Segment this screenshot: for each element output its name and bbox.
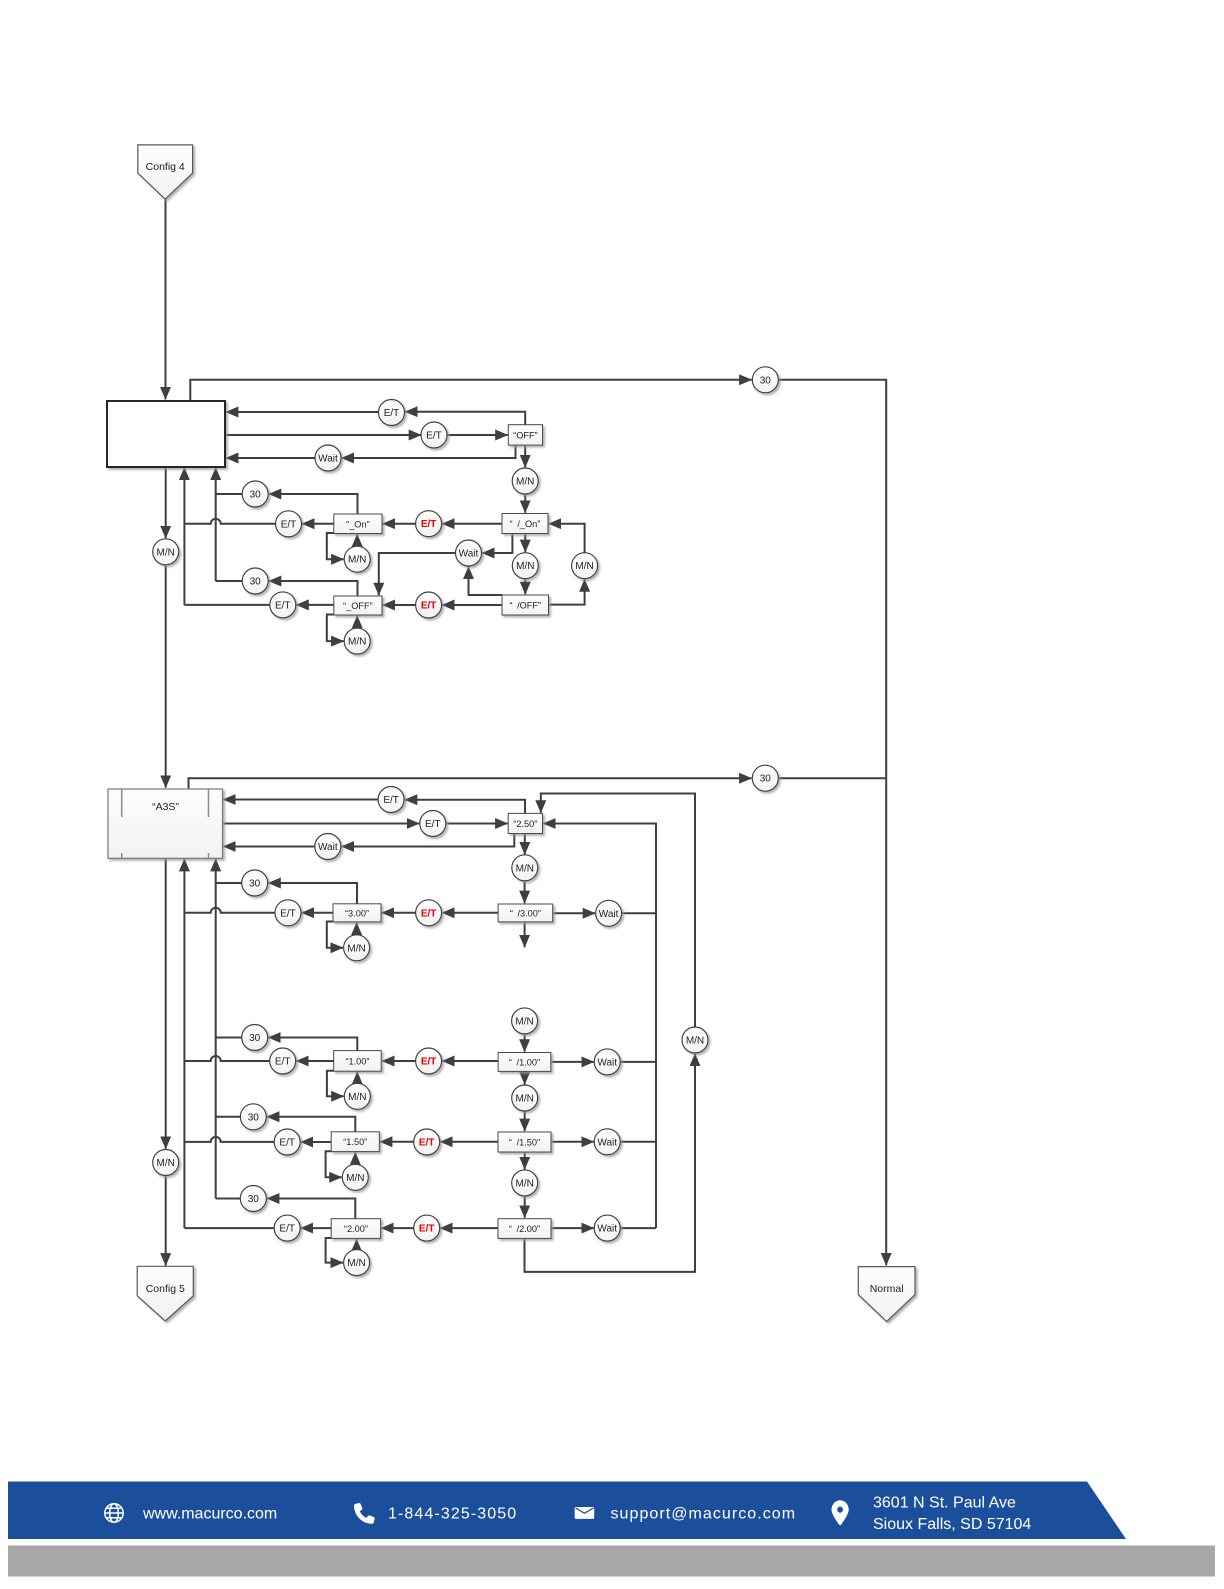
svg-text:E/T: E/T <box>421 601 437 612</box>
svg-text:M/N: M/N <box>516 477 534 488</box>
wire Wait into A3S <box>223 846 315 848</box>
wire slash_On to red E/T <box>442 523 502 525</box>
svg-text:“A3S”: “A3S” <box>152 801 179 813</box>
wire E/T row4 left <box>184 1227 274 1229</box>
wire 30 to collector <box>216 493 243 495</box>
wire M/N loop into 300 bottom <box>356 923 358 935</box>
wire E/T row2 left with hop <box>184 1056 269 1061</box>
wire slash100 to Wait right <box>551 1061 594 1063</box>
wire Wait2 to v3 <box>620 1061 656 1063</box>
svg-text:M/N: M/N <box>516 1178 534 1189</box>
wire box1 to E/T out <box>225 434 421 436</box>
node E/T return 2 <box>378 787 404 813</box>
wire ET collector up into box1 <box>183 468 185 605</box>
svg-text:30: 30 <box>760 375 772 386</box>
wire M/N to slash_OFF box <box>524 579 526 595</box>
node E/T row On <box>276 511 302 537</box>
process slash_On <box>502 514 548 534</box>
svg-text:E/T: E/T <box>421 908 437 919</box>
svg-text:Config 4: Config 4 <box>146 161 185 173</box>
wire M/N loop into slash_On right <box>549 524 585 553</box>
svg-text:“ /3.00”: “ /3.00” <box>510 908 541 918</box>
footer blue bar <box>8 1482 1126 1540</box>
terminator Config 5 <box>137 1266 193 1321</box>
wire E/T out to B250 <box>446 823 508 825</box>
wire 30 r4 to collector <box>216 1198 241 1200</box>
svg-text:E/T: E/T <box>419 1224 435 1235</box>
wire 150 top to 30 <box>267 1117 355 1132</box>
wire slash200 to Wait right <box>551 1227 594 1229</box>
wire A3S down to M/N main2 <box>165 858 167 1149</box>
wire 30 collector up into box1 <box>215 468 217 581</box>
node red E/T row 1.50 <box>414 1129 440 1155</box>
node M/N loop 1.50 <box>342 1164 368 1190</box>
wire slash150 to red E/T <box>440 1141 498 1143</box>
wire red E/T to _OFF box <box>383 604 416 606</box>
node M/N standalone <box>512 1008 538 1034</box>
svg-text:M/N: M/N <box>516 1094 534 1105</box>
node E/T out 1 <box>421 422 447 448</box>
svg-text:M/N: M/N <box>347 943 365 954</box>
wire 150 box to E/T <box>301 1141 332 1143</box>
node E/T row 3.00 <box>275 900 301 926</box>
wire box1 top to 30 loop <box>190 380 751 401</box>
svg-text:“2.50”: “2.50” <box>513 819 537 829</box>
wire slash300 to Wait right <box>553 912 596 914</box>
wire 30 to Normal <box>779 380 886 1266</box>
wire Config4 to box1 <box>165 199 167 399</box>
node red E/T row 3.00 <box>416 900 442 926</box>
svg-text:E/T: E/T <box>421 1057 437 1068</box>
wire red E/T to _On box <box>383 523 416 525</box>
svg-text:Normal: Normal <box>870 1283 904 1295</box>
svg-text:www.macurco.com: www.macurco.com <box>142 1506 277 1523</box>
wire M/N main down to A3S <box>165 565 167 788</box>
node M/N loop 1.00 <box>344 1083 370 1109</box>
node Wait row 1.00 <box>594 1049 620 1075</box>
svg-text:30: 30 <box>250 577 262 588</box>
node M/N mid 1 <box>512 1085 538 1111</box>
svg-text:M/N: M/N <box>516 863 534 874</box>
wire 30 to right vertical <box>779 777 886 779</box>
node Wait return 2 <box>315 834 341 860</box>
wire B250 top to E/T return <box>405 800 525 814</box>
svg-text:“OFF”: “OFF” <box>513 430 538 440</box>
node E/T row 2.00 <box>274 1215 300 1241</box>
node M/N right loop 2 <box>682 1027 708 1053</box>
wire 300 self loop to M/N <box>327 922 343 948</box>
wire _On self loop to M/N <box>327 533 344 559</box>
wire M/N standalone to slash100 <box>524 1034 526 1052</box>
terminator Config 4 <box>138 145 193 199</box>
svg-text:“_On”: “_On” <box>346 519 370 529</box>
node M/N mid 2 <box>512 1170 538 1196</box>
svg-text:Wait: Wait <box>597 1224 617 1235</box>
wire M/N right up into B250 top <box>541 794 695 1028</box>
wire M/N mid to slash150 <box>524 1111 526 1131</box>
node 30 row OFF <box>242 568 268 594</box>
wire slash_OFF to red E/T <box>442 604 502 606</box>
svg-text:E/T: E/T <box>281 519 297 530</box>
wire v3 up into B250 right <box>543 824 656 1229</box>
wire box1 down to M/N main <box>165 467 167 538</box>
process slash1.00 <box>498 1053 551 1072</box>
wire OFF to M/N <box>524 445 526 467</box>
wire E/T left with hop <box>184 519 275 524</box>
svg-text:“1.50”: “1.50” <box>343 1137 367 1147</box>
node E/T row 1.00 <box>270 1048 296 1074</box>
node red E/T row 1.00 <box>416 1048 442 1074</box>
process _OFF <box>334 596 382 615</box>
wire 200 box to E/T <box>301 1227 332 1229</box>
node E/T row OFF <box>270 592 296 618</box>
svg-text:E/T: E/T <box>279 1138 295 1149</box>
wire M/N to slash300 box <box>524 881 526 903</box>
svg-text:“ /_On”: “ /_On” <box>510 519 541 529</box>
wire red E/T to 200 box <box>381 1227 414 1229</box>
svg-text:“2.00”: “2.00” <box>344 1224 368 1234</box>
wire Wait to v3 <box>622 912 656 914</box>
wire red E/T to 100 box <box>382 1060 416 1062</box>
svg-text:E/T: E/T <box>383 795 399 806</box>
wire slash150 to M/N mid2 <box>524 1152 526 1169</box>
process slash1.50 <box>498 1132 551 1152</box>
svg-text:E/T: E/T <box>280 908 296 919</box>
svg-text:Config 5: Config 5 <box>146 1283 185 1295</box>
svg-text:E/T: E/T <box>425 819 441 830</box>
svg-text:M/N: M/N <box>348 555 366 566</box>
node 30 row 3.00 <box>242 870 268 896</box>
node M/N loop 2.00 <box>344 1250 370 1276</box>
process box1 (blank) <box>107 401 225 467</box>
wire 30 r2 to collector <box>216 1037 242 1039</box>
node Wait middle <box>456 540 482 566</box>
wire slash_OFF to Wait middle <box>469 567 503 595</box>
svg-text:M/N: M/N <box>348 637 366 648</box>
wire Wait into box1 <box>226 457 315 459</box>
wire Wait middle to _OFF top <box>379 553 456 595</box>
svg-text:1-844-325-3050: 1-844-325-3050 <box>388 1506 517 1523</box>
wire slash100 to red E/T <box>442 1060 498 1062</box>
node 30 top loop 1 <box>752 367 778 393</box>
node red E/T row 2.00 <box>414 1215 440 1241</box>
wire E/T return into A3S <box>223 799 378 801</box>
wire M/N loop into 200 bottom <box>356 1239 358 1250</box>
node E/T row 1.50 <box>274 1129 300 1155</box>
wire 30 r1 to collector <box>216 882 242 884</box>
node red E/T row On <box>416 511 442 537</box>
wire ET collector up into A3S <box>183 859 185 1228</box>
node red E/T row OFF <box>416 592 442 618</box>
svg-text:“ /OFF”: “ /OFF” <box>509 601 541 611</box>
node 30 row On <box>242 481 268 507</box>
process A3S <box>108 789 223 858</box>
svg-text:“1.00”: “1.00” <box>345 1056 369 1066</box>
process 1.50 <box>331 1132 379 1152</box>
process 2.50 <box>508 813 542 833</box>
wire 100 top to 30 <box>268 1038 357 1051</box>
wire OFF top to E/T return <box>405 412 525 425</box>
svg-text:E/T: E/T <box>419 1138 435 1149</box>
wire 200 self loop to M/N <box>326 1238 343 1263</box>
node M/N under slash_On <box>512 553 538 579</box>
wire _OFF self loop to M/N <box>327 615 344 642</box>
node M/N main 2 <box>153 1150 179 1176</box>
node E/T out 2 <box>420 811 446 837</box>
wire slash_On to M/N below <box>524 534 526 553</box>
wire A3S top to 30 loop <box>189 778 752 789</box>
node M/N main 1 <box>153 539 179 565</box>
wire M/N loop into 150 bottom <box>354 1152 356 1164</box>
svg-text:E/T: E/T <box>426 431 442 442</box>
wire M/N main2 down to Config5 <box>165 1176 167 1266</box>
wire B250 to M/N <box>524 834 526 855</box>
node M/N loop On <box>344 546 370 572</box>
wire 100 box to E/T <box>296 1060 334 1062</box>
node E/T return 1 <box>379 400 405 426</box>
svg-text:Wait: Wait <box>318 454 338 465</box>
wire Wait4 to v3 <box>620 1227 656 1229</box>
wire _On top to 30 <box>269 494 358 514</box>
globe icon <box>105 1504 123 1522</box>
wire _On box to E/T <box>302 523 334 525</box>
wire M/N to slash_On box <box>524 494 526 513</box>
svg-text:“ /2.00”: “ /2.00” <box>509 1224 540 1234</box>
wire 300 box to E/T <box>302 912 334 914</box>
node 30 top loop 2 <box>752 765 778 791</box>
footer gray bar <box>8 1546 1215 1577</box>
node Wait return 1 <box>315 445 341 471</box>
svg-text:E/T: E/T <box>275 600 291 611</box>
wire slash300 to red E/T <box>442 912 498 914</box>
svg-text:M/N: M/N <box>347 1258 365 1269</box>
svg-text:M/N: M/N <box>157 1158 175 1169</box>
node M/N right loop 1 <box>572 553 598 579</box>
node 30 row 1.00 <box>242 1025 268 1051</box>
wire 30b to collector <box>216 580 243 582</box>
svg-text:“ /1.50”: “ /1.50” <box>509 1138 540 1148</box>
svg-text:30: 30 <box>249 1033 261 1044</box>
wire Wait3 to v3 <box>620 1141 656 1143</box>
process 3.00 <box>333 904 381 922</box>
wire M/N loop into _On bottom <box>356 534 358 546</box>
node Wait row 2.00 <box>594 1215 620 1241</box>
process _On <box>334 514 382 534</box>
wire 30 collector up into A3S <box>215 859 217 1199</box>
wire slash_OFF right to M/N loop <box>549 579 585 604</box>
wire E/T row3 left with hop <box>184 1137 274 1142</box>
wire 200 top to 30 <box>267 1199 355 1219</box>
svg-text:E/T: E/T <box>384 408 400 419</box>
wire slash150 to Wait right <box>551 1141 594 1143</box>
svg-text:“_OFF”: “_OFF” <box>343 601 373 611</box>
svg-text:30: 30 <box>248 1194 260 1205</box>
wire _OFF top to 30 <box>269 581 358 596</box>
svg-text:E/T: E/T <box>279 1224 295 1235</box>
svg-text:M/N: M/N <box>348 1092 366 1103</box>
wire M/N loop into _OFF bottom <box>356 616 358 628</box>
process slash3.00 <box>498 904 553 922</box>
wire slash100 to M/N mid <box>524 1071 526 1084</box>
envelope icon <box>575 1507 595 1519</box>
svg-text:M/N: M/N <box>575 561 593 572</box>
wire red E/T to 300 box <box>382 912 416 914</box>
svg-text:30: 30 <box>248 1112 260 1123</box>
svg-text:“3.00”: “3.00” <box>345 908 369 918</box>
wire red E/T to 150 box <box>380 1141 414 1143</box>
node M/N under 2.50 <box>512 855 538 881</box>
svg-text:30: 30 <box>249 879 261 890</box>
wire slash300 dangling down <box>524 922 526 947</box>
wire slash_On to Wait middle <box>482 534 512 554</box>
node Wait row 1.50 <box>594 1129 620 1155</box>
node 30 row 1.50 <box>240 1104 266 1130</box>
wire E/T return into box1 <box>226 411 379 413</box>
node Wait row 3.00 <box>596 900 622 926</box>
svg-text:30: 30 <box>250 490 262 501</box>
wire OFF to Wait <box>342 445 516 458</box>
svg-text:3601 N St. Paul Ave: 3601 N St. Paul Ave <box>873 1495 1016 1512</box>
process 1.00 <box>334 1051 382 1072</box>
svg-text:“ /1.00”: “ /1.00” <box>509 1057 540 1067</box>
wire E/T out to OFF <box>447 434 508 436</box>
svg-text:E/T: E/T <box>421 519 437 530</box>
wire 30 r3 to collector <box>216 1116 241 1118</box>
wire 150 self loop to M/N <box>326 1151 342 1177</box>
svg-text:M/N: M/N <box>515 1016 533 1027</box>
wire E/T row1 left with hop <box>184 908 275 913</box>
svg-text:E/T: E/T <box>275 1057 291 1068</box>
svg-text:Wait: Wait <box>318 842 338 853</box>
svg-text:M/N: M/N <box>157 547 175 558</box>
wire M/N mid2 to slash200 <box>524 1196 526 1218</box>
svg-text:support@macurco.com: support@macurco.com <box>611 1506 797 1523</box>
svg-text:Sioux Falls, SD 57104: Sioux Falls, SD 57104 <box>873 1516 1031 1533</box>
wire M/N loop into 100 bottom <box>356 1072 358 1083</box>
terminator Normal <box>858 1267 915 1322</box>
svg-text:Wait: Wait <box>599 909 619 920</box>
svg-text:Wait: Wait <box>459 549 479 560</box>
node M/N loop OFF <box>344 628 370 654</box>
location pin icon <box>832 1500 849 1525</box>
svg-text:Wait: Wait <box>597 1137 617 1148</box>
process slash2.00 <box>498 1219 551 1239</box>
svg-text:M/N: M/N <box>516 561 534 572</box>
wire slash200 to red E/T <box>440 1227 498 1229</box>
wire 300 top to 30 <box>268 883 357 904</box>
wire A3S to E/T out <box>223 823 420 825</box>
svg-text:30: 30 <box>760 774 772 785</box>
process 2.00 <box>331 1219 380 1239</box>
node 30 row 2.00 <box>240 1186 266 1212</box>
svg-text:M/N: M/N <box>686 1036 704 1047</box>
wire _OFF box to E/T <box>296 604 334 606</box>
process slash_OFF <box>502 595 549 615</box>
node M/N under OFF <box>512 468 538 494</box>
node M/N loop 3.00 <box>344 935 370 961</box>
phone icon <box>354 1503 375 1524</box>
process OFF <box>508 425 542 445</box>
wire B250 to Wait <box>342 834 515 847</box>
wire 100 self loop to M/N <box>327 1071 344 1097</box>
wire E/T2 left to collector <box>184 604 269 606</box>
svg-text:Wait: Wait <box>597 1057 617 1068</box>
svg-text:M/N: M/N <box>346 1173 364 1184</box>
wire slash200 bottom loop to M/N right <box>525 1054 696 1272</box>
